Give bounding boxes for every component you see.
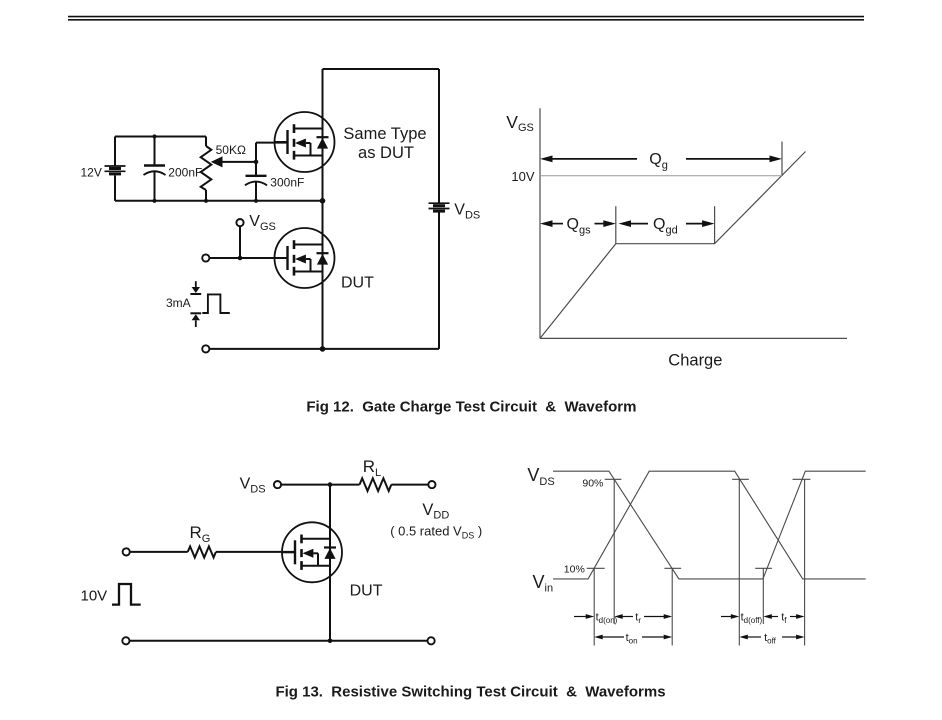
svg-text:Qgs: Qgs bbox=[567, 216, 592, 237]
battery 12V bbox=[105, 166, 126, 174]
tick Qgd right bbox=[714, 206, 716, 244]
svg-text:Qgd: Qgd bbox=[653, 216, 678, 237]
node dot source bbox=[328, 639, 333, 644]
wire 200nF lower lead bbox=[154, 171, 156, 201]
waveform Vin bbox=[553, 471, 866, 579]
wire VGS tap bbox=[239, 226, 241, 258]
extension line L3 bbox=[671, 569, 673, 646]
svg-text:12V: 12V bbox=[81, 165, 102, 179]
arrow ton right bbox=[642, 636, 665, 638]
pulse symbol 10V bbox=[112, 584, 141, 605]
wire wiper to junction bbox=[222, 161, 256, 163]
tick 10b bbox=[664, 567, 681, 569]
terminal bottom right bbox=[428, 637, 435, 644]
waveform VDS bbox=[553, 471, 866, 579]
wire loop top rail bbox=[115, 136, 206, 138]
terminal gate13 bbox=[123, 548, 130, 555]
svg-text:Same Type: Same Type bbox=[343, 125, 426, 143]
wire right bus lower bbox=[438, 213, 440, 349]
curve VGS bbox=[540, 152, 806, 339]
wire 50K lower lead bbox=[205, 190, 207, 201]
pulse symbol 3mA bbox=[202, 294, 230, 313]
extension line L5 bbox=[762, 568, 764, 624]
arrow toff right bbox=[782, 636, 797, 638]
svg-text:DUT: DUT bbox=[341, 274, 374, 291]
extension line L6 bbox=[804, 479, 806, 645]
svg-text:VGS: VGS bbox=[506, 112, 534, 134]
svg-text:tr: tr bbox=[635, 611, 641, 625]
10V level line bbox=[540, 175, 782, 177]
chart y axis bbox=[539, 108, 541, 338]
transistor DUT bbox=[275, 228, 335, 288]
wire gate upper mosfet bbox=[256, 142, 288, 144]
wire top rail left bbox=[281, 484, 359, 486]
svg-text:VDS: VDS bbox=[454, 201, 480, 221]
arrow ton left bbox=[594, 635, 603, 640]
svg-text:VDS: VDS bbox=[240, 476, 266, 496]
svg-text:200nF: 200nF bbox=[168, 165, 202, 179]
top double rule bbox=[68, 17, 864, 20]
wire loop left lower bbox=[114, 176, 116, 201]
svg-text:RG: RG bbox=[190, 523, 211, 545]
svg-text:Charge: Charge bbox=[668, 351, 722, 369]
extension line L1 bbox=[593, 568, 595, 645]
svg-text:( 0.5 rated VDS ): ( 0.5 rated VDS ) bbox=[390, 523, 482, 540]
wire 300nF lower lead bbox=[255, 181, 257, 201]
current source 3mA bbox=[190, 281, 201, 327]
wire left bus bbox=[322, 69, 324, 349]
wire 200nF upper lead bbox=[154, 137, 156, 166]
extension line L2 bbox=[613, 479, 615, 624]
terminal gate input bbox=[202, 254, 209, 261]
wire loop left upper bbox=[114, 137, 116, 167]
node dots loop bbox=[152, 134, 325, 351]
tick 90a bbox=[605, 478, 622, 480]
potentiometer wiper arrow bbox=[211, 156, 223, 167]
wire bottom rail bbox=[130, 640, 428, 642]
arrow Qgd bbox=[619, 220, 715, 227]
arrow toff left bbox=[739, 635, 748, 640]
wire bottom rail bbox=[209, 348, 439, 350]
svg-text:10%: 10% bbox=[564, 564, 585, 576]
svg-text:ton: ton bbox=[626, 632, 638, 646]
svg-text:toff: toff bbox=[764, 632, 777, 646]
svg-text:3mA: 3mA bbox=[166, 296, 191, 310]
wire right bus upper bbox=[438, 69, 440, 203]
wire gate DUT bbox=[209, 257, 287, 259]
timing arrows row1 bbox=[574, 614, 805, 619]
svg-text:Qg: Qg bbox=[649, 151, 668, 172]
timing arrows row2 bbox=[594, 635, 804, 640]
svg-text:300nF: 300nF bbox=[270, 175, 304, 189]
svg-text:10V: 10V bbox=[511, 169, 534, 184]
node dot drain bbox=[328, 482, 333, 487]
tick 90b bbox=[732, 478, 749, 480]
arrow lead td(off) bbox=[721, 616, 732, 618]
terminal bottom bbox=[202, 345, 209, 352]
wire top rail right bbox=[391, 484, 428, 486]
wire top rail bbox=[323, 68, 440, 70]
transistor DUT2 bbox=[282, 522, 342, 582]
arrow Qg bbox=[540, 156, 782, 163]
tick Qgs-Qgd bbox=[615, 206, 617, 244]
svg-text:10V: 10V bbox=[81, 588, 108, 605]
svg-text:VDS: VDS bbox=[527, 465, 554, 488]
terminal bottom left bbox=[122, 637, 129, 644]
svg-text:tf: tf bbox=[781, 611, 787, 625]
tick 10c bbox=[755, 567, 772, 569]
tick Qg bbox=[781, 142, 783, 177]
tick 10a bbox=[587, 567, 605, 569]
terminal VDS13 bbox=[274, 481, 281, 488]
svg-text:VGS: VGS bbox=[249, 213, 276, 233]
capacitor 300nF bbox=[245, 176, 267, 186]
svg-text:Vin: Vin bbox=[533, 572, 554, 595]
terminal VDD bbox=[428, 481, 435, 488]
resistor RL bbox=[360, 478, 392, 491]
svg-text:td(off): td(off) bbox=[741, 611, 763, 625]
arrow tf right bbox=[790, 616, 797, 618]
wire 50K upper lead bbox=[205, 137, 207, 147]
wire drain bus bbox=[329, 485, 331, 641]
tick 90c bbox=[793, 478, 811, 480]
svg-text:Fig 12. Gate Charge Test Circ: Fig 12. Gate Charge Test Circuit & Wavef… bbox=[306, 398, 636, 415]
wire gate left bbox=[130, 551, 188, 553]
svg-text:50KΩ: 50KΩ bbox=[216, 143, 246, 157]
capacitor 200nF bbox=[144, 166, 166, 176]
svg-text:DUT: DUT bbox=[350, 583, 383, 600]
arrow tr left bbox=[614, 614, 623, 619]
arrow tf left bbox=[763, 614, 772, 619]
svg-text:RL: RL bbox=[363, 457, 381, 479]
wire 300nF upper lead bbox=[255, 143, 257, 176]
arrow lead td(on) bbox=[574, 616, 586, 618]
svg-text:VDD: VDD bbox=[422, 501, 449, 521]
arrow tr right bbox=[644, 616, 665, 618]
resistor 50K zigzag bbox=[201, 146, 212, 190]
svg-text:90%: 90% bbox=[582, 477, 603, 489]
svg-text:Fig 13. Resistive Switching T: Fig 13. Resistive Switching Test Circuit… bbox=[275, 683, 665, 700]
arrow Qgs bbox=[540, 220, 616, 227]
battery VDS bbox=[429, 203, 450, 211]
chart x axis bbox=[540, 337, 847, 339]
svg-text:as DUT: as DUT bbox=[358, 144, 414, 162]
wire loop bottom rail bbox=[115, 200, 323, 202]
resistor RG bbox=[188, 546, 216, 557]
terminal VGS bbox=[236, 219, 243, 226]
transistor Q1 same type bbox=[275, 112, 335, 172]
wire gate right bbox=[216, 551, 295, 553]
extension line L4 bbox=[738, 479, 740, 645]
